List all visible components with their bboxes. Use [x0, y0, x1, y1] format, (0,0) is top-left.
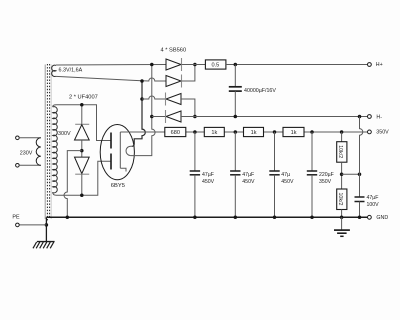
transformer T1 primary terminal bottom [16, 164, 20, 168]
transformer core line 1 [44, 65, 46, 220]
junction ground C5 [358, 216, 362, 220]
junction bleeder top [340, 130, 344, 134]
svg-text:350V: 350V [319, 179, 332, 185]
svg-text:450V: 450V [242, 179, 255, 185]
tube V1 upper plate [110, 133, 112, 149]
wire bridge to resistor 0.5 [182, 64, 206, 66]
junction ground C2 [234, 216, 238, 220]
wire bleeder column top [341, 132, 343, 142]
label C2 [242, 172, 255, 185]
transformer HV winding 300V [53, 107, 58, 193]
capacitor 40000uF/16V [229, 65, 242, 117]
capacitor C5 47uF/100V [355, 197, 365, 217]
capacitor C3 47u/450V [269, 132, 279, 217]
capacitor C4 220uF/350V [307, 132, 317, 217]
diode D3 SB560 row1 [166, 58, 182, 71]
wire H+ rail [226, 64, 368, 66]
diode D6 SB560 row4 [166, 110, 182, 123]
label C3 [281, 172, 294, 185]
wire row3 to diode D5 with hop [142, 96, 166, 99]
earth ground symbol [33, 242, 55, 249]
svg-text:450V: 450V [202, 179, 215, 185]
diode D2 UF4007 [75, 157, 90, 174]
junction filter node 2 [234, 130, 238, 134]
wire AC input B: bridge rows 2-3, hop over output, to heater [132, 81, 146, 146]
wire bridge plus: D3,D4 cathodes join [182, 65, 195, 82]
transformer T1 primary winding [36, 138, 41, 166]
wire bleeder bottom [341, 210, 343, 218]
capacitor C2 47uF/450V [230, 132, 240, 217]
wire heater winding bottom to bridge with hop [56, 76, 166, 81]
wire HV winding top to node A rail and tube upper plate [53, 105, 111, 141]
svg-text:10k/2: 10k/2 [337, 145, 343, 158]
wire primary bottom [19, 164, 41, 166]
junction bridge plus [193, 63, 197, 67]
wire elevation vertical with hop over 350V [360, 117, 363, 198]
junction ground bleeder [340, 216, 344, 220]
transformer core line 4 [50, 65, 52, 220]
wire bridge minus: D5,D6 anodes join [181, 99, 195, 117]
wire diode D1 to CT node [81, 140, 83, 157]
transformer T1 primary terminal top [16, 136, 20, 140]
junction row3 AC B [140, 97, 144, 101]
diode D2 UF4007 cathode bar [75, 173, 89, 175]
svg-text:300V: 300V [58, 131, 71, 137]
resistor 0.5 ohm [205, 60, 226, 69]
svg-text:40000µF/16V: 40000µF/16V [244, 88, 276, 94]
svg-text:47µ: 47µ [281, 172, 290, 178]
wire HV winding bottom node B rail and tube lower plate [53, 161, 111, 195]
svg-text:2 * UF4007: 2 * UF4007 [69, 94, 98, 100]
junction ground C4 [310, 216, 314, 220]
wire node A to diode D1 [81, 105, 83, 125]
wire 350V rail from tube cathode [120, 131, 367, 133]
resistor 1k third [283, 127, 304, 136]
node B junction [80, 194, 84, 198]
resistor 10k/2 lower [337, 189, 347, 210]
terminal H- [368, 115, 372, 119]
wire PE terminal [19, 224, 46, 226]
diode D5 SB560 row3 [166, 93, 182, 106]
svg-text:4 * SB560: 4 * SB560 [161, 47, 187, 53]
svg-text:230V: 230V [20, 150, 33, 156]
junction H+ cap [234, 63, 238, 67]
terminal 350V [368, 130, 372, 134]
wire center tap to ground rail with hop [64, 151, 82, 218]
wire ground rail [46, 216, 367, 218]
junction bleeder mid right [358, 172, 362, 176]
svg-text:450V: 450V [281, 179, 294, 185]
wire bleeder to chassis ground [341, 217, 343, 230]
wire heater winding top to bridge [56, 64, 166, 67]
wire primary top [19, 137, 41, 139]
diode D1 UF4007 cathode bar [75, 123, 89, 125]
resistor 680 [165, 127, 186, 136]
junction filter node 3 [273, 130, 277, 134]
tube V1 heater arc [126, 146, 132, 155]
tube V1 envelope [100, 125, 134, 180]
junction filter node 1 [193, 130, 197, 134]
wire diode D2 to node B [81, 174, 83, 195]
wire H- rail [181, 116, 368, 118]
svg-text:H-: H- [376, 115, 382, 121]
label C5 [367, 195, 380, 208]
junction H- cap [234, 115, 238, 119]
terminal PE [16, 223, 20, 227]
svg-text:47µF: 47µF [242, 172, 254, 178]
resistor 10k/2 upper [337, 142, 347, 163]
svg-text:1k: 1k [211, 130, 217, 136]
transformer heater winding 6.3V [52, 65, 56, 76]
svg-text:0.5: 0.5 [212, 63, 220, 69]
svg-text:1k: 1k [291, 130, 297, 136]
junction filter node 4 [310, 130, 314, 134]
junction row4 AC A [150, 115, 154, 119]
diode D1 UF4007 [75, 125, 90, 140]
svg-text:H+: H+ [376, 62, 383, 68]
terminal H+ [368, 63, 372, 67]
svg-text:1k: 1k [251, 130, 257, 136]
node CT junction [80, 149, 84, 153]
svg-text:47µF: 47µF [367, 195, 379, 201]
chassis ground symbol [334, 230, 350, 236]
svg-text:220µF: 220µF [319, 172, 334, 178]
svg-text:GND: GND [376, 215, 388, 221]
wire bleeder middle [341, 162, 343, 189]
junction H- elevation [358, 115, 362, 119]
svg-text:10k/2: 10k/2 [337, 193, 343, 206]
tube V1 cathode [120, 132, 126, 172]
svg-text:6.3V/1,6A: 6.3V/1,6A [59, 67, 83, 73]
junction PE [45, 223, 49, 227]
terminal GND [368, 215, 372, 219]
node A junction [80, 103, 84, 107]
junction bridge minus [193, 115, 197, 119]
junction ground C1 [193, 216, 197, 220]
junction bleeder mid left [340, 172, 344, 176]
resistor 1k first [204, 127, 224, 136]
label C4 [319, 172, 334, 185]
wire row4 to diode D6 [152, 116, 166, 118]
diode D4 SB560 row2 [166, 75, 182, 88]
svg-text:680: 680 [171, 130, 180, 136]
svg-text:350V: 350V [376, 129, 389, 135]
junction row1 AC A [150, 63, 154, 67]
junction ground C3 [273, 216, 277, 220]
transformer core dashed line 3 [49, 64, 51, 219]
wire bleeder mid to elevation [342, 173, 360, 175]
resistor 1k second [244, 127, 264, 136]
svg-text:47µF: 47µF [202, 172, 214, 178]
junction row2 AC B [140, 79, 144, 83]
junction ground CT [66, 216, 70, 220]
tube V1 lower plate [110, 154, 112, 170]
capacitor C1 47uF/450V [190, 132, 200, 217]
svg-text:6BY5: 6BY5 [111, 183, 125, 189]
svg-text:PE: PE [12, 214, 20, 220]
svg-text:100V: 100V [367, 202, 380, 208]
wire screen to PE [45, 217, 47, 241]
transformer core dashed line 2 [46, 64, 48, 222]
wire AC input A: bridge rail, hop over output, to heater [131, 65, 155, 156]
label C1 [202, 172, 215, 185]
